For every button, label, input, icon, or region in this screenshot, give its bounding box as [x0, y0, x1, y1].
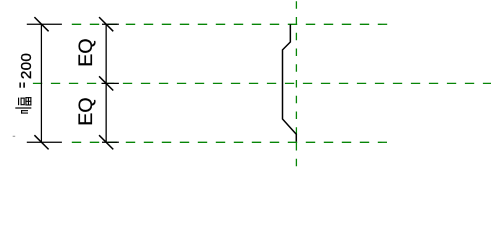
profile polyline (black)	[283, 24, 297, 141]
reference plane vertical (green dashed)	[295, 1, 297, 170]
reference plane top (green dashed)	[72, 23, 388, 25]
reference plane middle (green dashed)	[33, 82, 491, 84]
reference plane bottom (green dashed)	[72, 141, 387, 143]
witness line dim2 bottom	[102, 141, 119, 143]
label dim1 equals sign (rotated, drawn)	[19, 83, 25, 88]
witness line dim1 bottom	[27, 141, 62, 143]
dimension line dim2 (EQ) vertical	[105, 24, 107, 142]
tick dim1 bottom	[34, 135, 48, 149]
svg-text:EQ: EQ	[75, 38, 97, 67]
tick dim2 bottom	[99, 135, 113, 149]
tick dim2 middle	[99, 76, 113, 90]
tick dim1 top	[34, 17, 48, 31]
witness line dim2 middle	[102, 82, 119, 84]
witness line dim1 top	[27, 23, 62, 25]
dimension line dim1 (width=200) vertical	[40, 24, 42, 142]
stray gray dash left	[13, 136, 16, 137]
witness line dim2 top	[102, 23, 119, 25]
label dim1 kanji haba (width) drawn strokes	[15, 97, 31, 114]
tick dim2 top	[99, 17, 113, 31]
svg-text:EQ: EQ	[75, 97, 97, 126]
svg-text:200: 200	[18, 53, 35, 79]
